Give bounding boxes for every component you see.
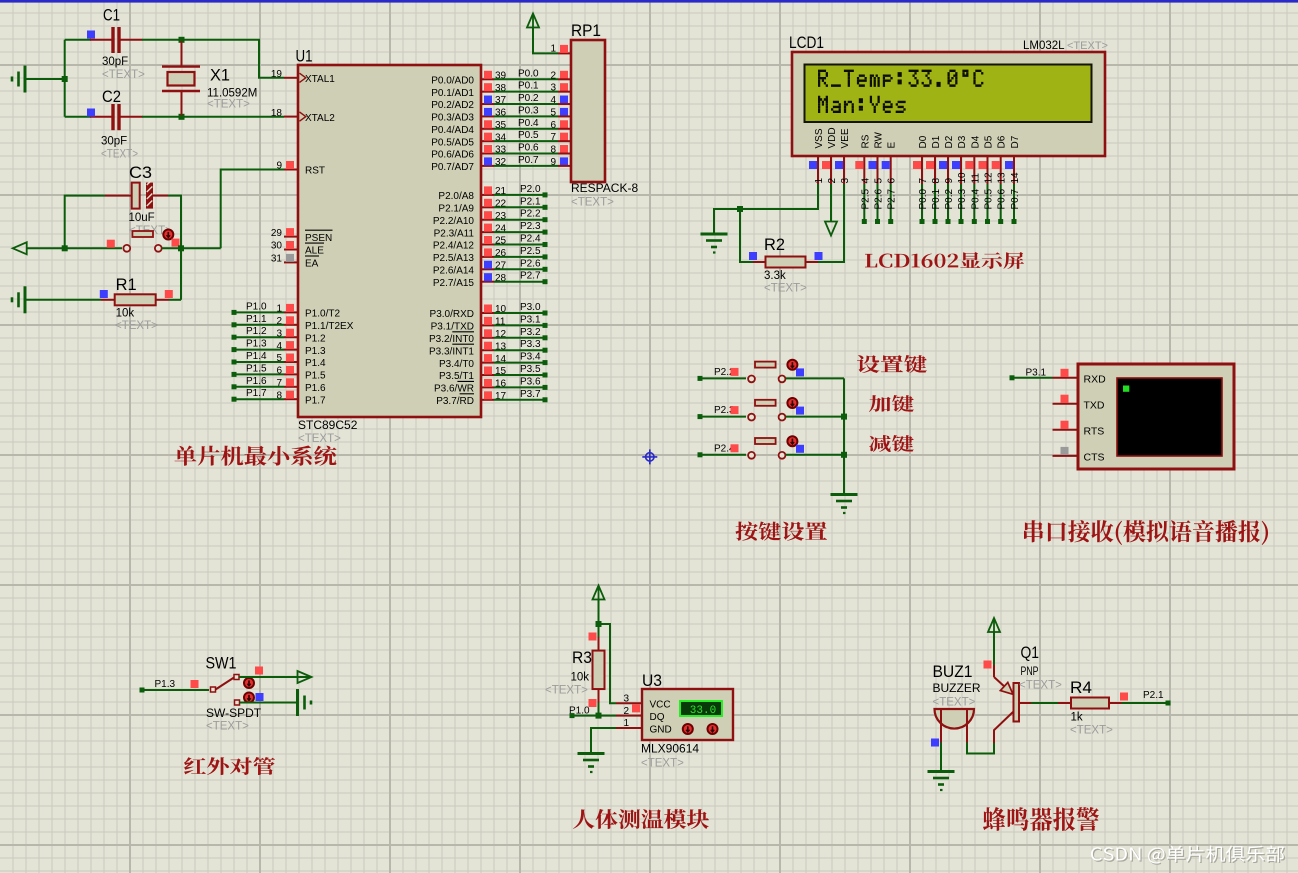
crystal X1 <box>162 41 200 116</box>
U1 pin 2 P1.1 stub <box>284 324 298 326</box>
U1 pin 29 probe square <box>286 228 294 236</box>
wire key to trunk P2.4 <box>786 454 845 456</box>
U1 pin 12 P3.2 stub <box>481 337 494 339</box>
LCD1 pin 13 probe square <box>992 161 1000 169</box>
svg-text:P1.6: P1.6 <box>305 383 326 394</box>
svg-text:P1.0/T2: P1.0/T2 <box>305 309 340 320</box>
RP1 pin 9 stub <box>558 165 571 167</box>
svg-text:10k: 10k <box>116 308 135 320</box>
wire net P1.7 <box>235 398 284 400</box>
LCD1 pin 3 stub <box>843 155 845 184</box>
U1 pin 15 P3.5 stub <box>481 374 494 376</box>
U1 pin 35 P0.4 stub <box>481 128 494 130</box>
svg-text:<TEXT>: <TEXT> <box>298 433 341 445</box>
U1 pin 1 P1.0 stub <box>284 311 298 313</box>
wire net P0.1 <box>494 91 558 93</box>
svg-text:12: 12 <box>984 172 995 184</box>
svg-text:2: 2 <box>623 706 629 717</box>
svg-text:P1.2: P1.2 <box>305 333 326 344</box>
svg-text:<TEXT>: <TEXT> <box>1067 40 1108 52</box>
LCD1 pin 10 probe square <box>952 161 960 169</box>
svg-text:SW-SPDT: SW-SPDT <box>206 706 262 720</box>
wire end dot P1.3 <box>140 688 145 693</box>
svg-text:P3.4: P3.4 <box>520 352 541 363</box>
wire net P1.6 <box>235 386 284 388</box>
wire net P2.1 <box>1122 702 1167 704</box>
wire net P2.5 <box>494 256 543 258</box>
overbar P3.2/INT0 <box>452 331 474 333</box>
junction key2 <box>841 414 847 420</box>
R2 right blue square <box>815 252 823 260</box>
svg-text:1: 1 <box>814 178 825 184</box>
svg-text:2: 2 <box>550 70 556 81</box>
wire net P1.4 <box>235 361 284 363</box>
wire C3 right down <box>168 196 181 249</box>
svg-text:9: 9 <box>276 161 282 172</box>
wire end dot P0.3 <box>959 219 964 224</box>
svg-text:R4: R4 <box>1070 678 1092 697</box>
R3 top red square <box>589 633 597 641</box>
wire end dot P2.3 <box>543 230 548 235</box>
U1 pin 2 probe square <box>286 316 294 324</box>
label hongwai duiguan <box>184 757 275 775</box>
svg-text:RW: RW <box>874 131 885 148</box>
svg-text:P1.5: P1.5 <box>246 363 267 374</box>
wire net P2.7 <box>494 281 543 283</box>
U1 pin 23 P2.2 stub <box>481 219 494 221</box>
svg-text:P1.4: P1.4 <box>246 351 267 362</box>
terminal pin CTS probe square <box>1061 447 1069 455</box>
LCD1 pin 7 probe square <box>913 161 921 169</box>
SW1 actuator up <box>244 678 254 688</box>
svg-text:3: 3 <box>840 178 851 184</box>
U1 pin 24 probe square <box>484 224 492 232</box>
U1 pin 25 probe square <box>484 236 492 244</box>
U3 pin 2 red square <box>632 704 640 712</box>
push button RESET <box>123 231 161 252</box>
svg-text:P2.1/A9: P2.1/A9 <box>438 204 474 215</box>
wire end dot P1.5 <box>232 372 237 377</box>
LCD1 pin 9 stub <box>947 155 949 184</box>
wire net P1.3 <box>235 349 284 351</box>
U1 pin 28 probe square <box>484 273 492 281</box>
U1 pin 15 probe square <box>484 367 492 375</box>
U1 pin 11 P3.1 stub <box>481 324 494 326</box>
RP1 pin 1 stub <box>558 52 571 54</box>
wire end dot P1.4 <box>232 360 237 365</box>
svg-text:P3.4/T0: P3.4/T0 <box>439 359 474 370</box>
key blue square P2.2 <box>796 368 804 376</box>
svg-text:10: 10 <box>957 172 968 184</box>
RP1 pin 9 probe square <box>560 157 568 165</box>
R3 bottom red square <box>589 699 597 707</box>
wire end dot P1.7 <box>232 397 237 402</box>
wire Q1 collector to buzzer <box>967 743 994 754</box>
ground (left, R1) <box>12 286 25 313</box>
svg-text:30pF: 30pF <box>101 136 127 148</box>
U1 pin 29 PSEN stub <box>284 236 298 238</box>
svg-text:P0.4/AD4: P0.4/AD4 <box>431 125 474 136</box>
svg-text:P0.7/AD7: P0.7/AD7 <box>431 162 474 173</box>
svg-text:P3.0: P3.0 <box>520 302 541 313</box>
svg-text:P1.2: P1.2 <box>246 326 267 337</box>
U1 pin 10 probe square <box>484 305 492 313</box>
svg-text:P3.5/T1: P3.5/T1 <box>439 371 474 382</box>
node junction R3 top <box>596 621 602 627</box>
LCD1 pin 12 stub <box>987 155 989 184</box>
SW1 actuator down <box>244 693 254 703</box>
svg-text:P2.0/A8: P2.0/A8 <box>438 191 474 202</box>
svg-text:MLX90614: MLX90614 <box>641 742 699 756</box>
svg-text:P2.4: P2.4 <box>520 234 541 245</box>
svg-text:<TEXT>: <TEXT> <box>207 99 250 111</box>
svg-text:4: 4 <box>860 178 871 184</box>
svg-text:P0.1: P0.1 <box>518 81 539 92</box>
overbar P3.7/RD <box>460 393 474 395</box>
capacitor C2 <box>90 104 143 130</box>
wire key to trunk P2.3 <box>786 416 845 418</box>
svg-text:P1.3: P1.3 <box>246 339 267 350</box>
wire net P0.4 (LCD pin 11) <box>973 184 975 222</box>
svg-text:<TEXT>: <TEXT> <box>101 149 138 161</box>
svg-text:P0.4: P0.4 <box>518 118 539 129</box>
svg-text:P0.6/AD6: P0.6/AD6 <box>431 150 474 161</box>
overbar PSEN <box>305 229 333 231</box>
svg-text:P3.1/TXD: P3.1/TXD <box>431 322 474 333</box>
wire C2 left <box>65 116 91 118</box>
node junction at left vertical <box>62 76 68 82</box>
wire node to VCC <box>599 624 617 703</box>
wire end dot P2.7 <box>888 219 893 224</box>
wire end dot P0.4 <box>972 219 977 224</box>
chip U3 body <box>642 689 733 740</box>
push button key P2.4 <box>748 438 785 459</box>
wire R1 branch vertical <box>180 248 182 299</box>
svg-text:8: 8 <box>931 178 942 184</box>
wire end dot P0.2 <box>946 219 951 224</box>
svg-text:C1: C1 <box>103 6 120 25</box>
wire net P1.2 <box>235 336 284 338</box>
U1 pin 7 P1.6 stub <box>284 386 298 388</box>
svg-text:P0.0/AD0: P0.0/AD0 <box>431 76 474 87</box>
C3 right lead <box>153 195 168 197</box>
wire net P0.6 (LCD pin 13) <box>1000 184 1002 222</box>
wire net P0.7 (LCD pin 14) <box>1013 184 1015 222</box>
svg-text:11: 11 <box>970 173 981 184</box>
wire end dot P3.1 <box>1010 375 1015 380</box>
RP1 pin 4 probe square <box>560 96 568 104</box>
wire GND pin to ground <box>591 728 616 753</box>
U1 pin 23 probe square <box>484 211 492 219</box>
svg-text:C3: C3 <box>129 163 152 182</box>
wire net P0.7 <box>494 165 558 167</box>
svg-text:P3.3: P3.3 <box>520 339 541 350</box>
U1 pin 36 P0.3 stub <box>481 115 494 117</box>
R1 blue probe square <box>100 290 108 298</box>
U1 pin 28 P2.7 stub <box>481 281 494 283</box>
terminal pin TXD stub <box>1053 403 1079 405</box>
svg-text:31: 31 <box>271 254 283 265</box>
svg-text:P0.5: P0.5 <box>984 188 995 209</box>
U1 pin 38 P0.1 stub <box>481 91 494 93</box>
wire reset row <box>26 247 122 249</box>
wire to RST pin <box>221 170 284 249</box>
svg-text:18: 18 <box>271 108 283 119</box>
svg-text:P0.3: P0.3 <box>518 105 539 116</box>
key actuator P2.4 <box>787 436 797 446</box>
power arrow (R3) <box>593 586 605 600</box>
LCD1 pin 13 stub <box>1000 155 1002 184</box>
node junction VSS/R2 <box>737 206 743 212</box>
LCD1 pin 8 probe square <box>926 161 934 169</box>
wire end dot P2.7 <box>543 279 548 284</box>
svg-text:X1: X1 <box>210 66 230 85</box>
svg-text:EA: EA <box>305 259 319 270</box>
svg-text:9: 9 <box>944 178 955 184</box>
wire net P2.6 <box>494 268 543 270</box>
U1 pin 5 P1.4 stub <box>284 361 298 363</box>
svg-text:P3.6/WR: P3.6/WR <box>434 384 474 395</box>
svg-text:RST: RST <box>305 166 325 177</box>
wire end dot P3.3 <box>543 348 548 353</box>
svg-text:P1.7: P1.7 <box>305 395 326 406</box>
wire end dot P3.2 <box>543 335 548 340</box>
R4 red square <box>1120 693 1128 701</box>
button right red square <box>172 239 180 247</box>
SW1 red square <box>255 667 263 675</box>
terminal pin RTS probe square <box>1061 421 1069 429</box>
C2 blue probe square <box>87 109 95 117</box>
svg-text:2: 2 <box>827 178 838 184</box>
wire end dot P3.6 <box>543 385 548 390</box>
svg-text:P0.1: P0.1 <box>931 188 942 209</box>
svg-text:U1: U1 <box>296 47 313 66</box>
U1 pin 9 probe square <box>286 161 294 169</box>
U1 pin 3 P1.2 stub <box>284 336 298 338</box>
wire net P3.4 <box>494 362 543 364</box>
svg-text:VCC: VCC <box>650 700 671 711</box>
wire VSS to ground <box>714 184 818 233</box>
wire net P2.7 (LCD pin 6) <box>890 184 892 222</box>
svg-text:P2.5: P2.5 <box>520 246 541 257</box>
U3 temperature display <box>680 701 722 717</box>
wire net P3.1 (terminal) <box>1014 377 1053 379</box>
wire ground to node <box>25 78 65 80</box>
LCD1 screen <box>805 65 1092 123</box>
wire R2 branch <box>740 209 753 262</box>
power arrow RP1 <box>527 14 539 28</box>
key actuator P2.2 <box>787 360 797 370</box>
ground (U3) <box>578 754 605 773</box>
svg-text:P2.0: P2.0 <box>520 184 541 195</box>
top window border line <box>0 0 1298 3</box>
origin marker <box>642 449 657 464</box>
U1 pin 10 P3.0 stub <box>481 312 494 314</box>
svg-text:P0.0: P0.0 <box>518 68 539 79</box>
U1 pin 39 probe square <box>484 71 492 79</box>
ground (LCD VSS) <box>701 234 728 253</box>
wire net P1.0 <box>235 311 284 313</box>
R1 red probe square <box>165 290 173 298</box>
label shezhi jian <box>857 355 927 373</box>
U1 pin 32 P0.7 stub <box>481 165 494 167</box>
push button key P2.2 <box>748 362 785 383</box>
wire net P0.5 <box>494 140 558 142</box>
U1 pin 13 probe square <box>484 342 492 350</box>
svg-text:STC89C52: STC89C52 <box>298 418 358 432</box>
LCD1 pin 7 stub <box>921 155 923 184</box>
power arrow right (SW1) <box>298 671 312 683</box>
LCD1 pin 14 probe square <box>1005 161 1013 169</box>
svg-text:SW1: SW1 <box>206 654 237 673</box>
wire net P3.2 <box>494 337 543 339</box>
svg-text:30pF: 30pF <box>102 56 128 68</box>
svg-text:P1.4: P1.4 <box>305 358 326 369</box>
LCD1 pin 4 probe square <box>855 161 863 169</box>
svg-text:<TEXT>: <TEXT> <box>641 758 684 770</box>
U1 pin 7 probe square <box>286 378 294 386</box>
wire end dot P2.6 <box>543 267 548 272</box>
wire end dot P2.2 <box>543 217 548 222</box>
wire vertical C1-C2 left <box>64 40 66 117</box>
push button actuator <box>163 230 173 240</box>
svg-text:D4: D4 <box>970 135 981 148</box>
wire end dot P0.7 <box>1012 219 1017 224</box>
terminal pin RTS stub <box>1053 429 1079 431</box>
wire end dot P0.6 <box>998 219 1003 224</box>
svg-text:R3: R3 <box>572 648 592 667</box>
svg-text:D6: D6 <box>997 135 1008 148</box>
svg-text:E: E <box>887 142 898 149</box>
resistor R4 <box>1058 698 1122 709</box>
U1 pin 22 P2.1 stub <box>481 206 494 208</box>
svg-text:9: 9 <box>550 157 556 168</box>
svg-text:BUZ1: BUZ1 <box>933 662 973 681</box>
svg-text:7: 7 <box>918 178 929 184</box>
wire net P2.2 <box>494 219 543 221</box>
svg-text:29: 29 <box>271 228 283 239</box>
LCD1 body <box>792 52 1105 156</box>
node junction crystal bottom <box>179 114 185 120</box>
svg-text:XTAL1: XTAL1 <box>305 74 335 85</box>
svg-text:PNP: PNP <box>1021 666 1039 678</box>
LCD1 pin 2 stub <box>830 155 832 184</box>
U1 pin 30 ALE stub <box>284 249 298 251</box>
U1 pin 33 probe square <box>484 145 492 153</box>
svg-text:<TEXT>: <TEXT> <box>545 685 588 697</box>
wire end dot P2.6 <box>875 219 880 224</box>
svg-text:P0.5: P0.5 <box>518 130 539 141</box>
wire net P3.0 <box>494 312 543 314</box>
wire net P2.0 <box>494 194 543 196</box>
node junction crystal top <box>179 37 185 43</box>
svg-text:RXD: RXD <box>1084 373 1107 385</box>
U1 pin 16 probe square <box>484 379 492 387</box>
RP1 pin 2 probe square <box>560 71 568 79</box>
node junction R3 bottom <box>596 713 602 719</box>
svg-text:P0.6: P0.6 <box>518 143 539 154</box>
wire end dot P3.4 <box>543 360 548 365</box>
svg-text:VEE: VEE <box>840 128 851 148</box>
RP1 pin 7 probe square <box>560 133 568 141</box>
key blue square P2.4 <box>796 445 804 453</box>
wire net P0.2 <box>494 103 558 105</box>
svg-text:XTAL2: XTAL2 <box>305 113 335 124</box>
U1 pin 36 probe square <box>484 108 492 116</box>
LCD1 pin 11 probe square <box>965 161 973 169</box>
svg-text:P3.7: P3.7 <box>520 389 541 400</box>
wire end dot P0.1 <box>933 219 938 224</box>
svg-text:P2.5: P2.5 <box>860 188 871 209</box>
svg-text:P3.3/INT1: P3.3/INT1 <box>429 346 474 357</box>
svg-text:1: 1 <box>623 718 629 729</box>
svg-text:<TEXT>: <TEXT> <box>571 197 614 209</box>
svg-text:P2.7/A15: P2.7/A15 <box>433 278 475 289</box>
wire end dot P1.0 <box>570 713 575 718</box>
label renti cewen mokuai <box>573 809 709 829</box>
RP1 pin 6 stub <box>558 128 571 130</box>
wire net P0.2 (LCD pin 9) <box>947 184 949 222</box>
wire net P2.2 (key) <box>702 377 746 379</box>
U1 pin 39 P0.0 stub <box>481 78 494 80</box>
LCD1 pin 1 probe square <box>809 161 817 169</box>
wire net P0.1 (LCD pin 8) <box>934 184 936 222</box>
RP1 pin 4 stub <box>558 103 571 105</box>
wire C3 left <box>65 196 105 249</box>
wire net P2.4 <box>494 244 543 246</box>
terminal pin RXD probe square <box>1061 369 1069 377</box>
U1 pin 4 P1.3 stub <box>284 349 298 351</box>
key blue square P2.3 <box>796 407 804 415</box>
svg-text:VDD: VDD <box>827 127 838 148</box>
svg-text:R1: R1 <box>116 275 137 294</box>
LCD1 pin 11 stub <box>973 155 975 184</box>
wire net P3.3 <box>494 349 543 351</box>
wire SW1 lower to ground <box>240 702 297 704</box>
LCD1 pin 8 stub <box>934 155 936 184</box>
svg-text:VSS: VSS <box>814 128 825 148</box>
wire C2 right to XTAL2 <box>142 116 284 118</box>
wire end dot P0.5 <box>985 219 990 224</box>
wire power to Q1 emitter <box>993 632 995 665</box>
LCD1 pin 5 probe square <box>869 161 877 169</box>
net label red square P2.2 <box>731 368 739 376</box>
wire end dot P3.5 <box>543 373 548 378</box>
svg-text:D1: D1 <box>931 135 942 148</box>
resistor R3 <box>593 637 605 703</box>
svg-text:P2.3/A11: P2.3/A11 <box>434 228 475 239</box>
wire net P1.1 <box>235 324 284 326</box>
svg-text:P1.1: P1.1 <box>246 314 267 325</box>
wire end dot P3.0 <box>543 311 548 316</box>
svg-text:<TEXT>: <TEXT> <box>102 69 145 81</box>
svg-text:D7: D7 <box>1010 135 1021 148</box>
SW1 blue square <box>256 693 264 701</box>
LCD1 pin 12 probe square <box>979 161 987 169</box>
U1 pin 17 P3.7 stub <box>481 399 494 401</box>
key actuator P2.3 <box>787 398 797 408</box>
label danpianji zuixiao xitong <box>175 446 337 466</box>
svg-text:<TEXT>: <TEXT> <box>933 697 976 709</box>
U1 pin 19 clock symbol <box>300 73 306 82</box>
U1 pin 30 probe square <box>286 241 294 249</box>
svg-text:C2: C2 <box>102 87 121 106</box>
RP1 pin 5 stub <box>558 115 571 117</box>
svg-text:ALE: ALE <box>305 246 324 257</box>
svg-text:30: 30 <box>271 241 283 252</box>
svg-text:P2.7: P2.7 <box>520 271 541 282</box>
Q1 base lead <box>1019 702 1031 704</box>
